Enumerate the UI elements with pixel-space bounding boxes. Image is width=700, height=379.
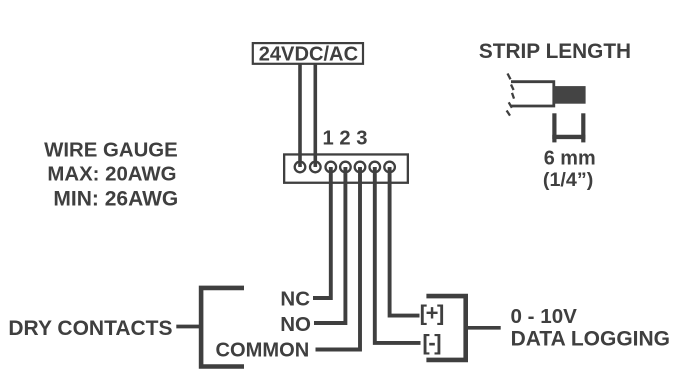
svg-text:COMMON: COMMON [216,340,310,362]
svg-text:1 2 3: 1 2 3 [323,128,368,150]
svg-text:0 - 10V: 0 - 10V [511,305,578,328]
svg-text:MIN: 26AWG: MIN: 26AWG [53,187,178,210]
svg-text:NC: NC [280,287,310,310]
svg-text:(1/4”): (1/4”) [543,169,593,191]
svg-text:NO: NO [280,313,311,336]
svg-text:DATA LOGGING: DATA LOGGING [511,328,670,351]
svg-text:6 mm: 6 mm [544,148,596,170]
svg-text:[+]: [+] [420,301,444,326]
svg-text:24VDC/AC: 24VDC/AC [259,44,358,66]
svg-text:WIRE GAUGE: WIRE GAUGE [44,140,178,162]
svg-text:DRY CONTACTS: DRY CONTACTS [8,317,172,340]
svg-text:MAX: 20AWG: MAX: 20AWG [47,164,176,186]
svg-text:STRIP LENGTH: STRIP LENGTH [479,40,631,63]
svg-text:[-]: [-] [422,330,441,355]
